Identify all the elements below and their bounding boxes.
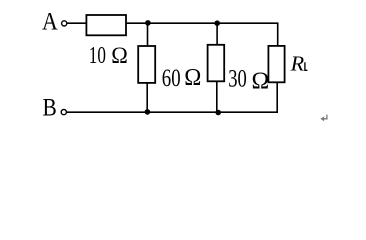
value label 60 ohm [162,63,181,91]
svg-text:30: 30 [228,64,247,93]
svg-text:10: 10 [89,43,106,68]
wire: bottom rail from B terminal to below RL [67,111,279,113]
svg-text:A: A [42,9,58,36]
svg-text:Ω: Ω [252,67,270,95]
wire: branch 1 vertical top (node to 60 ohm) [147,23,149,46]
svg-text:R: R [290,52,305,76]
node dot: top rail / 60 ohm branch [145,20,151,26]
value label 10 ohm [89,43,106,68]
resistor RL (vertical box) [268,46,284,82]
wire: RL vertical bottom (RL to bottom rail) [276,82,278,113]
svg-text:Ω: Ω [184,64,201,91]
resistor 10 ohm (series box) [86,15,126,35]
wire: top rail from 10 ohm resistor to top-right corner, down to RL [126,23,278,46]
terminal B (open circle) [61,110,66,115]
svg-text:Ω: Ω [111,42,128,68]
gray paragraph return mark [323,115,327,119]
svg-text:B: B [43,95,57,122]
wire: branch 1 vertical bottom (60 ohm to bottom rail) [146,83,148,113]
wire: branch 2 vertical top (node to 30 ohm) [216,23,218,45]
wire: branch 2 vertical bottom (30 ohm to bottom rail) [216,81,218,112]
resistor 60 ohm (vertical box) [138,46,155,83]
node dot: bottom rail / 30 ohm branch [215,110,221,116]
node dot: bottom rail / 60 ohm branch [145,109,151,115]
svg-text:60: 60 [162,63,181,91]
terminal A (open circle) [62,21,67,26]
node dot: top rail / 30 ohm branch [214,20,220,26]
wire: A terminal to 10 ohm resistor [67,22,87,24]
value label 30 ohm [228,64,247,93]
resistor 30 ohm (vertical box) [208,45,225,82]
